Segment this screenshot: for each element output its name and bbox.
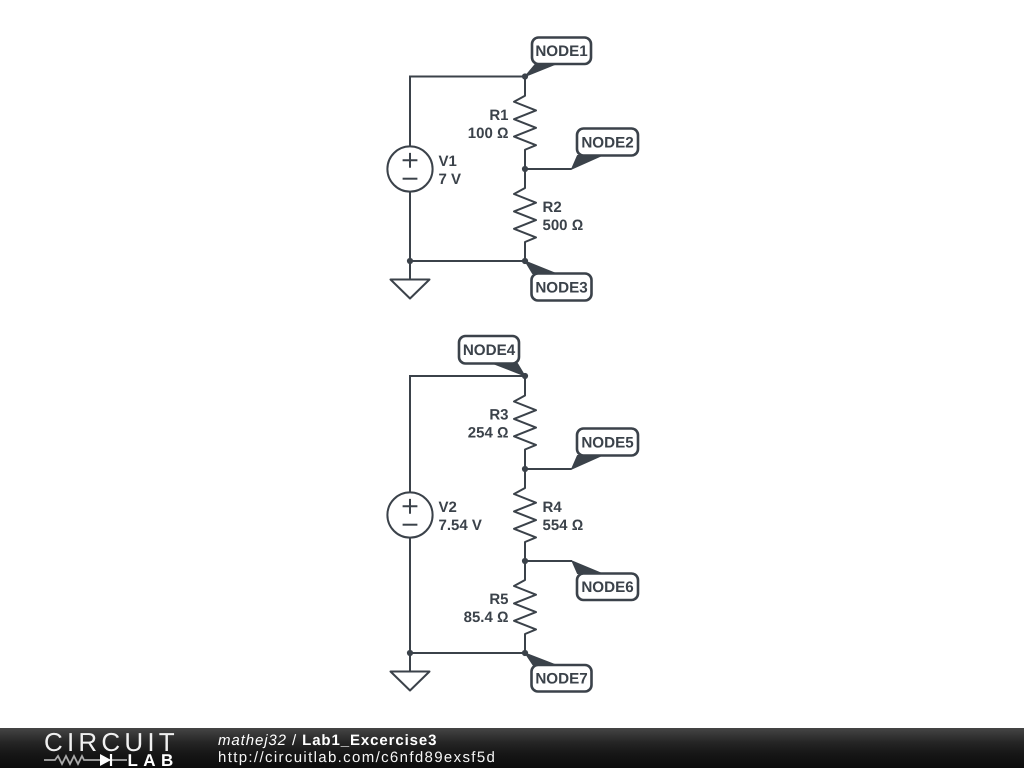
resistor R3	[468, 376, 536, 469]
svg-text:R1: R1	[489, 107, 508, 124]
svg-text:85.4 Ω: 85.4 Ω	[464, 609, 509, 626]
wire	[525, 168, 572, 170]
junction	[522, 258, 528, 264]
svg-text:554 Ω: 554 Ω	[543, 517, 584, 534]
CircuitLab logo	[44, 730, 176, 768]
ground	[391, 261, 430, 299]
wire	[409, 192, 411, 262]
wire	[525, 560, 572, 562]
svg-text:254 Ω: 254 Ω	[468, 425, 509, 442]
wire	[410, 260, 525, 262]
wire	[409, 538, 411, 654]
svg-text:R4: R4	[543, 499, 563, 516]
resistor R5	[464, 561, 536, 653]
junction	[522, 466, 528, 472]
svg-text:R2: R2	[543, 199, 562, 216]
footer url text	[218, 749, 496, 766]
svg-text:NODE1: NODE1	[535, 43, 588, 60]
node NODE3	[525, 261, 592, 301]
node NODE6	[572, 561, 638, 600]
svg-text:NODE7: NODE7	[535, 671, 587, 688]
wire	[525, 468, 572, 470]
junction	[522, 373, 528, 379]
resistor R4	[514, 469, 583, 561]
wire	[410, 652, 525, 654]
svg-text:NODE2: NODE2	[581, 134, 633, 151]
svg-text:R5: R5	[489, 591, 508, 608]
svg-text:7.54 V: 7.54 V	[439, 517, 482, 534]
junction	[522, 73, 528, 79]
resistor R1	[468, 77, 536, 170]
svg-text:100 Ω: 100 Ω	[468, 125, 509, 142]
svg-text:NODE6: NODE6	[581, 579, 633, 596]
svg-text:NODE4: NODE4	[463, 342, 516, 359]
svg-text:V1: V1	[439, 153, 457, 170]
svg-text:V2: V2	[439, 499, 457, 516]
ground	[391, 653, 430, 691]
wire	[410, 77, 525, 147]
node NODE7	[525, 653, 592, 692]
voltage source V2	[387, 492, 481, 537]
resistor R2	[514, 169, 583, 261]
junction	[407, 258, 413, 264]
svg-text:NODE3: NODE3	[535, 279, 587, 296]
junction	[522, 558, 528, 564]
junction	[407, 650, 413, 656]
footer title text	[218, 732, 437, 749]
svg-text:500 Ω: 500 Ω	[543, 217, 584, 234]
junction	[522, 650, 528, 656]
node NODE1	[525, 38, 591, 77]
wire	[410, 376, 525, 493]
node NODE2	[572, 129, 639, 170]
svg-text:7 V: 7 V	[439, 171, 462, 188]
svg-text:NODE5: NODE5	[581, 434, 634, 451]
node NODE5	[572, 429, 639, 470]
CircuitLab footer bar	[0, 728, 1024, 768]
node NODE4	[459, 336, 525, 376]
voltage source V1	[387, 146, 461, 191]
svg-text:R3: R3	[489, 407, 508, 424]
junction	[522, 166, 528, 172]
